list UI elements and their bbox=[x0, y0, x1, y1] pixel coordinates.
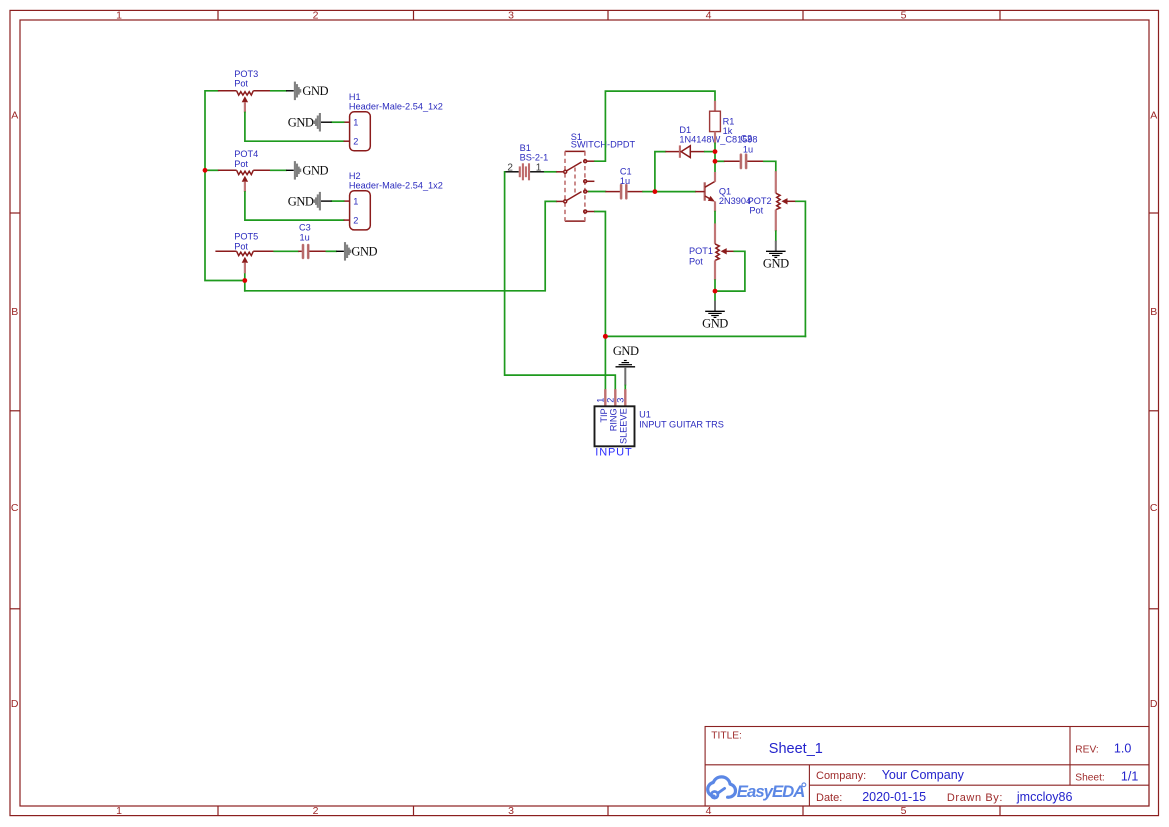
wire node to C2 bbox=[715, 160, 724, 162]
wire POT3 wiper to H1 pin2 bbox=[245, 113, 344, 142]
svg-text:5: 5 bbox=[901, 805, 907, 817]
wire base node to Q1 base bbox=[655, 191, 695, 193]
wire POT2 bottom to ground bbox=[775, 231, 777, 241]
column tick top 3/4 bbox=[607, 10, 609, 20]
svg-text:Sheet_1: Sheet_1 bbox=[769, 741, 823, 757]
svg-text:B1: B1 bbox=[520, 143, 531, 153]
svg-text:U1: U1 bbox=[639, 410, 651, 420]
svg-text:1/1: 1/1 bbox=[1121, 770, 1138, 784]
node junction Q1 base bbox=[653, 189, 658, 194]
wire POT1 wiper loop bbox=[715, 251, 745, 291]
row tick right B/C bbox=[1149, 410, 1159, 412]
svg-text:POT3: POT3 bbox=[234, 69, 258, 79]
svg-text:GND: GND bbox=[288, 116, 314, 130]
column tick bottom 5/6 bbox=[999, 806, 1001, 816]
wire R1 bottom to node bbox=[714, 143, 716, 151]
svg-text:jmccloy86: jmccloy86 bbox=[1016, 790, 1073, 804]
wire B1 pin2 to U1 pin2 bbox=[505, 172, 616, 389]
ground flag POT4 bbox=[286, 161, 328, 180]
svg-text:3: 3 bbox=[616, 398, 626, 403]
svg-text:2N3904: 2N3904 bbox=[719, 196, 751, 206]
svg-text:1: 1 bbox=[596, 398, 606, 403]
ground flag H1 mirrored bbox=[288, 113, 332, 132]
wire C3 to GND flag bbox=[326, 250, 336, 252]
header H2 bbox=[344, 191, 371, 230]
svg-text:2: 2 bbox=[606, 398, 616, 403]
svg-text:1u: 1u bbox=[743, 144, 753, 154]
node junction input rail bbox=[603, 334, 608, 339]
wire Q1 emitter to POT1 bbox=[714, 212, 716, 224]
svg-text:D: D bbox=[1150, 698, 1158, 710]
svg-text:2: 2 bbox=[353, 216, 358, 226]
svg-text:B: B bbox=[1150, 306, 1157, 318]
svg-text:EasyEDA: EasyEDA bbox=[737, 782, 805, 801]
wire node to node C2 bbox=[714, 152, 716, 162]
battery B1 bbox=[505, 163, 545, 180]
svg-text:GND: GND bbox=[302, 84, 328, 98]
svg-text:GND: GND bbox=[288, 195, 314, 209]
column tick bottom 2/3 bbox=[413, 806, 415, 816]
svg-text:D1: D1 bbox=[679, 125, 691, 135]
svg-text:1k: 1k bbox=[723, 126, 733, 136]
svg-text:SWITCH-DPDT: SWITCH-DPDT bbox=[571, 139, 636, 149]
svg-text:C2: C2 bbox=[740, 134, 752, 144]
ground earth U1 inverted bbox=[613, 344, 639, 385]
svg-text:2: 2 bbox=[507, 162, 513, 173]
node junction C2/collector bbox=[713, 159, 718, 164]
svg-text:1: 1 bbox=[353, 197, 358, 207]
wire S1 upper throw to top rail bbox=[595, 91, 715, 161]
svg-text:1: 1 bbox=[353, 118, 358, 128]
svg-text:Pot: Pot bbox=[689, 256, 703, 266]
node junction POT5 wiper bbox=[242, 278, 247, 283]
svg-text:Header-Male-2.54_1x2: Header-Male-2.54_1x2 bbox=[349, 180, 443, 190]
svg-text:2020-01-15: 2020-01-15 bbox=[862, 790, 926, 804]
capacitor C3 bbox=[298, 245, 326, 258]
svg-text:Pot: Pot bbox=[234, 159, 248, 169]
svg-text:TITLE:: TITLE: bbox=[711, 730, 742, 741]
EasyEDA logo cloud bbox=[708, 777, 736, 798]
potentiometer POT3 bbox=[218, 91, 271, 113]
ground flag H2 mirrored bbox=[288, 192, 332, 211]
row tick left C/D bbox=[10, 608, 20, 610]
header H1 bbox=[344, 112, 371, 151]
svg-text:2: 2 bbox=[313, 805, 319, 817]
wire rail across to POT2 bbox=[605, 335, 805, 337]
svg-text:4: 4 bbox=[706, 10, 712, 22]
svg-text:Company:: Company: bbox=[816, 770, 866, 782]
wire left bus vertical bbox=[205, 91, 245, 281]
transistor Q1 bbox=[695, 172, 715, 212]
svg-text:1: 1 bbox=[116, 805, 122, 817]
wire POT3 to GND flag bbox=[271, 90, 286, 92]
capacitor C1 bbox=[605, 185, 643, 198]
ground earth POT1 bbox=[702, 301, 728, 331]
wire POT4 to GND flag bbox=[271, 169, 286, 171]
svg-text:GND: GND bbox=[763, 256, 789, 270]
wire bottom bus to switch bbox=[245, 201, 557, 290]
column tick bottom 1/2 bbox=[217, 806, 219, 816]
row tick right A/B bbox=[1149, 212, 1159, 214]
wire H2 pin1 to GND flag bbox=[332, 200, 344, 202]
svg-text:1u: 1u bbox=[300, 232, 310, 242]
title block divider rev cell bbox=[1069, 727, 1071, 786]
wire POT5 wiper to bottom bus bbox=[244, 273, 246, 291]
svg-text:1u: 1u bbox=[620, 176, 630, 186]
row tick right C/D bbox=[1149, 608, 1159, 610]
svg-text:REV:: REV: bbox=[1075, 744, 1098, 755]
svg-text:RING: RING bbox=[609, 408, 619, 431]
ground flag POT3 bbox=[286, 82, 328, 101]
svg-text:TIP: TIP bbox=[599, 408, 609, 422]
wire S1 lower throw1 to C1 bbox=[589, 191, 605, 193]
wire POT4 wiper to H2 pin2 bbox=[245, 192, 344, 220]
svg-text:A: A bbox=[1150, 110, 1157, 122]
wire C1 to base node bbox=[643, 191, 655, 193]
svg-text:Pot: Pot bbox=[234, 79, 248, 89]
row tick left B/C bbox=[10, 410, 20, 412]
resistor R1 bbox=[710, 101, 721, 144]
node junction POT1 bottom bbox=[713, 289, 718, 294]
column tick top 4/5 bbox=[802, 10, 804, 20]
wire C2 to POT2 top bbox=[764, 161, 776, 171]
svg-text:5: 5 bbox=[901, 10, 907, 22]
wire B1 pin1 to S1 bbox=[545, 171, 557, 173]
svg-text:Header-Male-2.54_1x2: Header-Male-2.54_1x2 bbox=[349, 101, 443, 111]
potentiometer POT1 bbox=[715, 223, 734, 280]
svg-text:POT1: POT1 bbox=[689, 246, 713, 256]
svg-text:B: B bbox=[11, 306, 18, 318]
svg-text:Date:: Date: bbox=[816, 792, 842, 804]
EasyEDA logo registered mark bbox=[802, 783, 806, 787]
title block outline bbox=[705, 727, 1149, 807]
svg-text:D: D bbox=[11, 698, 19, 710]
svg-text:POT2: POT2 bbox=[748, 196, 772, 206]
svg-text:4: 4 bbox=[706, 805, 712, 817]
wire POT1 bottom to ground bbox=[714, 280, 716, 301]
svg-text:A: A bbox=[11, 110, 18, 122]
column tick bottom 3/4 bbox=[607, 806, 609, 816]
wire D1 to node bbox=[705, 151, 715, 153]
svg-text:POT4: POT4 bbox=[234, 149, 258, 159]
title block divider row1 bbox=[705, 764, 1149, 766]
wire ground to U1 pin3 bbox=[624, 386, 626, 390]
svg-text:Sheet:: Sheet: bbox=[1075, 772, 1104, 783]
svg-text:2: 2 bbox=[313, 10, 319, 22]
svg-text:INPUT GUITAR TRS: INPUT GUITAR TRS bbox=[639, 419, 724, 429]
wire bus to POT4 bbox=[205, 169, 218, 171]
svg-text:Pot: Pot bbox=[749, 206, 763, 216]
wire POT2 wiper to right rail bbox=[796, 201, 805, 336]
svg-text:SLEEVE: SLEEVE bbox=[619, 408, 629, 444]
ground flag C3 bbox=[336, 242, 377, 261]
svg-text:Drawn By:: Drawn By: bbox=[947, 792, 1003, 804]
switch S1 DPDT bbox=[556, 151, 595, 221]
svg-text:Pot: Pot bbox=[234, 241, 248, 251]
svg-text:GND: GND bbox=[302, 164, 328, 178]
svg-text:C: C bbox=[1150, 502, 1158, 514]
potentiometer POT4 bbox=[218, 170, 271, 192]
wire H1 pin1 to GND flag bbox=[332, 121, 344, 123]
row tick left A/B bbox=[10, 212, 20, 214]
svg-text:INPUT: INPUT bbox=[595, 447, 632, 459]
svg-text:1: 1 bbox=[536, 162, 542, 173]
potentiometer POT2 bbox=[776, 171, 796, 231]
title block divider logo cell bbox=[808, 765, 810, 806]
column tick top 5/6 bbox=[999, 10, 1001, 20]
title block divider company/date bbox=[809, 784, 1149, 786]
svg-text:Your Company: Your Company bbox=[882, 768, 965, 782]
connector U1 INPUT TRS bbox=[595, 389, 635, 446]
wire rail down to U1 pin1 bbox=[604, 336, 606, 389]
wire S1 lower throw2 down bbox=[595, 212, 605, 337]
svg-text:3: 3 bbox=[508, 805, 514, 817]
capacitor C2 bbox=[724, 155, 764, 168]
svg-text:GND: GND bbox=[613, 344, 639, 358]
potentiometer POT5 bbox=[215, 251, 274, 273]
column tick top 1/2 bbox=[217, 10, 219, 20]
svg-text:C3: C3 bbox=[299, 223, 311, 233]
node junction R1/D1 bbox=[713, 149, 718, 154]
diode D1 bbox=[665, 145, 704, 157]
ground earth POT2 bbox=[763, 241, 789, 271]
svg-text:1.0: 1.0 bbox=[1114, 741, 1131, 755]
column tick bottom 4/5 bbox=[802, 806, 804, 816]
svg-text:Q1: Q1 bbox=[719, 186, 731, 196]
wire collector node down bbox=[714, 161, 716, 172]
column tick top 2/3 bbox=[413, 10, 415, 20]
svg-text:1: 1 bbox=[116, 10, 122, 22]
wire base node up to D1 bbox=[655, 152, 666, 192]
svg-text:C: C bbox=[11, 502, 19, 514]
svg-text:BS-2-1: BS-2-1 bbox=[520, 153, 549, 163]
svg-text:GND: GND bbox=[351, 245, 377, 259]
svg-text:2: 2 bbox=[353, 137, 358, 147]
svg-text:GND: GND bbox=[702, 316, 728, 330]
svg-text:3: 3 bbox=[508, 10, 514, 22]
svg-text:POT5: POT5 bbox=[234, 232, 258, 242]
node junction POT4 left bbox=[203, 168, 208, 173]
wire POT5 to C3 bbox=[274, 250, 298, 252]
